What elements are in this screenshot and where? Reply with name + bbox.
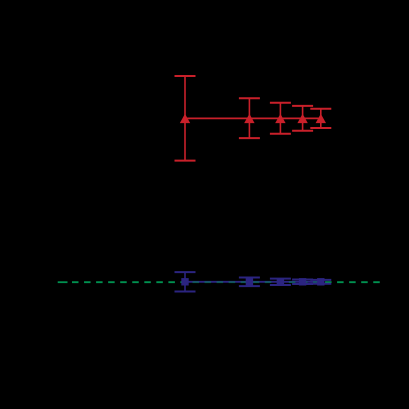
red error bars <box>185 76 321 161</box>
red marker 2 <box>244 114 254 123</box>
blue cap 1 bottom <box>175 290 196 292</box>
red cap 4 top <box>292 105 313 107</box>
blue square markers <box>181 278 324 285</box>
blue marker 3 <box>277 278 284 285</box>
blue errorbar 3 vertical <box>279 279 281 285</box>
red errorbar 3 vertical <box>279 103 281 134</box>
green dashed reference line: over blue line (teal blend) <box>185 281 321 283</box>
red cap 3 top <box>270 102 291 104</box>
blue errorbar 1 vertical <box>184 272 186 291</box>
red marker 4 <box>297 114 307 123</box>
blue cap 5 top <box>310 279 331 281</box>
blue marker 1 <box>181 278 188 285</box>
red marker 1 <box>180 114 190 123</box>
red cap 2 bottom <box>239 137 260 139</box>
red errorbar 2 vertical <box>248 98 250 138</box>
blue cap 4 top <box>292 279 313 281</box>
blue cap 4 bottom <box>292 283 313 285</box>
red cap 3 bottom <box>270 133 291 135</box>
blue cap 3 bottom <box>270 284 291 286</box>
blue errorbar 2 vertical <box>248 278 250 287</box>
red errorbar 1 vertical <box>184 76 186 161</box>
blue cap 1 top <box>175 271 196 273</box>
blue cap 2 top <box>239 277 260 279</box>
red marker 3 <box>275 114 285 123</box>
red cap 2 top <box>239 97 260 99</box>
red cap 5 bottom <box>310 127 331 129</box>
green dashed reference line: right of data <box>321 281 384 283</box>
blue cap 2 bottom <box>239 285 260 287</box>
blue errorbar 4 vertical <box>302 280 304 285</box>
red cap 1 bottom <box>175 160 196 162</box>
blue marker 2 <box>246 278 253 285</box>
blue marker 4 <box>299 278 306 285</box>
green dashed reference line: first long dash <box>58 281 68 283</box>
blue error bars <box>185 272 321 291</box>
blue marker 5 <box>317 278 324 285</box>
red errorbar 5 vertical <box>320 109 322 128</box>
blue errorbar 5 vertical <box>320 280 322 284</box>
red triangle markers <box>180 114 326 123</box>
green dashed reference line: left of data <box>72 281 185 283</box>
blue series connecting line <box>185 281 321 283</box>
red series connecting line <box>185 117 321 119</box>
red errorbar 4 vertical <box>302 106 304 131</box>
red cap 1 top <box>175 75 196 77</box>
red cap 5 top <box>310 108 331 110</box>
blue cap 3 top <box>270 278 291 280</box>
red marker 5 <box>316 114 326 123</box>
red cap 4 bottom <box>292 130 313 132</box>
blue cap 5 bottom <box>310 283 331 285</box>
